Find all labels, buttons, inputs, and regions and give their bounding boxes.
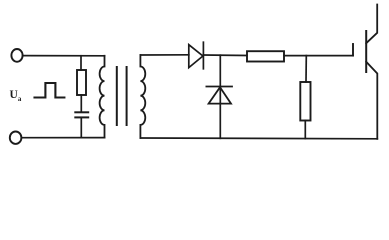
diode D1 [189,42,204,69]
terminal bottom-left [10,132,22,144]
pulse waveform symbol [35,83,65,98]
transistor Q1 body bar [365,31,367,72]
resistor R1 [77,70,86,95]
terminal top-left [11,49,22,62]
wire bottom secondary rail [140,137,377,140]
wire C1 to bottom rail [80,117,82,137]
wire R1 to C1 [80,95,82,112]
wire D2 branch top [219,55,221,103]
wire secondary top to D1 anode [140,54,188,56]
wire R2 branch top [305,56,307,82]
transistor Q1 gate bar [352,44,354,56]
transistor Q1 collector [366,5,377,44]
capacitor C1 [75,112,88,117]
transistor Q1 emitter [366,62,377,139]
resistor R2 [300,82,310,121]
wire bottom primary rail [22,137,105,139]
wire R1 branch top [80,56,82,70]
transformer core [117,67,127,125]
wire R3 to gate [284,55,353,57]
diode D2 [206,87,232,104]
resistor R3 [247,51,284,61]
transformer T1 secondary winding [140,55,145,138]
wire R2 to bottom rail [304,121,306,139]
wire top primary rail [23,55,105,57]
wire D1 cathode to R3 [203,54,247,57]
transformer T1 primary winding [100,56,105,138]
svg-text:Ua: Ua [10,89,22,103]
wire D2 anode to bottom rail [219,104,221,139]
